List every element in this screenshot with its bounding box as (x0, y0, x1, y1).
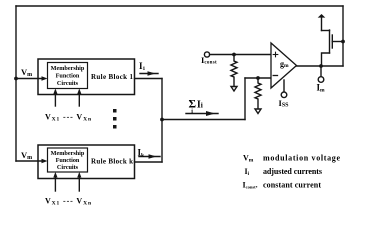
terminal Iss (281, 92, 287, 98)
op-amp U1 gm transconductor (271, 43, 297, 88)
svg-text:Vm: Vm (243, 154, 254, 164)
arrow sum of currents annotation (186, 111, 218, 116)
terminal Im (318, 77, 324, 83)
arrow R1 current to ground (231, 87, 237, 92)
wire Iss bias stub (283, 80, 285, 92)
node gate junction (341, 40, 345, 44)
wire Ik output of rule block k (135, 161, 163, 163)
arrow R2 current to ground (255, 109, 261, 114)
wire Vxn stub into block 1 (77, 89, 81, 107)
node summing junction (160, 118, 164, 122)
svg-text:Membership: Membership (51, 65, 85, 72)
svg-text:Im: Im (317, 83, 326, 94)
wire Vm input to rule block 1 (16, 76, 48, 80)
wire feedback top horizontal (16, 5, 343, 7)
wire feedback left vertical (15, 6, 17, 161)
transistor Q1 channel (329, 30, 331, 53)
wire sum bus horizontal (162, 119, 245, 121)
resistor R2 (255, 78, 261, 109)
svg-text:Rule Block 1: Rule Block 1 (91, 73, 134, 81)
label Membership Function Circuits (block 1) (51, 65, 85, 87)
svg-text:modulation voltage: modulation voltage (263, 154, 340, 163)
svg-text:Ik: Ik (138, 148, 146, 159)
wire inverting input (245, 77, 271, 79)
node output junction (319, 64, 323, 68)
svg-text:Circuits: Circuits (57, 80, 79, 87)
wire Vxn stub into block k (77, 172, 81, 191)
membership function circuits box (block 1) (48, 63, 88, 89)
wire Vm input to rule block k (16, 159, 48, 163)
transistor Q1 drain wire (322, 30, 330, 32)
resistor R1 (231, 55, 237, 87)
svg-text:adjusted currents: adjusted currents (263, 167, 322, 176)
wire I1 output of rule block 1 (135, 78, 163, 80)
wire summing vertical (161, 79, 163, 163)
svg-text:Rule Block k: Rule Block k (91, 158, 133, 166)
svg-text:Membership: Membership (51, 150, 85, 157)
svg-text:Function: Function (56, 73, 80, 80)
svg-text:Vm: Vm (21, 67, 32, 78)
arrow I1 current annotation (140, 71, 158, 75)
svg-text:Iconst.: Iconst. (243, 181, 258, 190)
wire Iconst to non-inverting input (210, 54, 271, 56)
terminal Iconst (204, 52, 209, 57)
wire Vx1 stub into block k (53, 172, 57, 191)
rule block 1 box (38, 59, 135, 95)
svg-text:VX1 --- VXn: VX1 --- VXn (45, 113, 91, 123)
transistor Q1 gate bar (331, 35, 333, 48)
svg-text:VX1 --- VXn: VX1 --- VXn (45, 197, 91, 207)
svg-text:Ii: Ii (245, 167, 250, 177)
wire sum bus up to inverting input (244, 78, 246, 120)
svg-text:Circuits: Circuits (57, 164, 79, 171)
svg-text:constant current: constant current (263, 181, 321, 190)
wire feedback right vertical (342, 6, 344, 66)
pin plus of U1 (273, 52, 278, 57)
membership function circuits box (block k) (48, 148, 88, 172)
label legend Ii adjusted currents (245, 167, 323, 177)
wire Vx1 stub into block 1 (53, 89, 57, 107)
rule block k box (38, 145, 135, 179)
power supply arrow VDD (318, 14, 326, 31)
arrow Ik current annotation (139, 154, 160, 158)
label legend Iconst constant current (243, 181, 322, 190)
transistor Q1 gate wire (332, 41, 343, 43)
node resistor R2 junction (256, 76, 260, 80)
wire U1 output (297, 65, 344, 67)
vertical ellipsis between rule blocks (113, 109, 117, 129)
wire Im stub (320, 66, 322, 77)
label legend Vm modulation voltage (243, 154, 340, 164)
node Vm tap junction (14, 77, 18, 81)
label Membership Function Circuits (block k) (51, 150, 85, 171)
svg-text:Vm: Vm (21, 150, 32, 161)
svg-text:ISS: ISS (279, 98, 290, 109)
transistor Q1 source wire (322, 53, 330, 66)
node resistor R1 junction (232, 53, 236, 57)
pin minus of U1 (273, 75, 277, 77)
svg-text:Function: Function (56, 157, 80, 164)
svg-text:I1: I1 (139, 61, 146, 72)
